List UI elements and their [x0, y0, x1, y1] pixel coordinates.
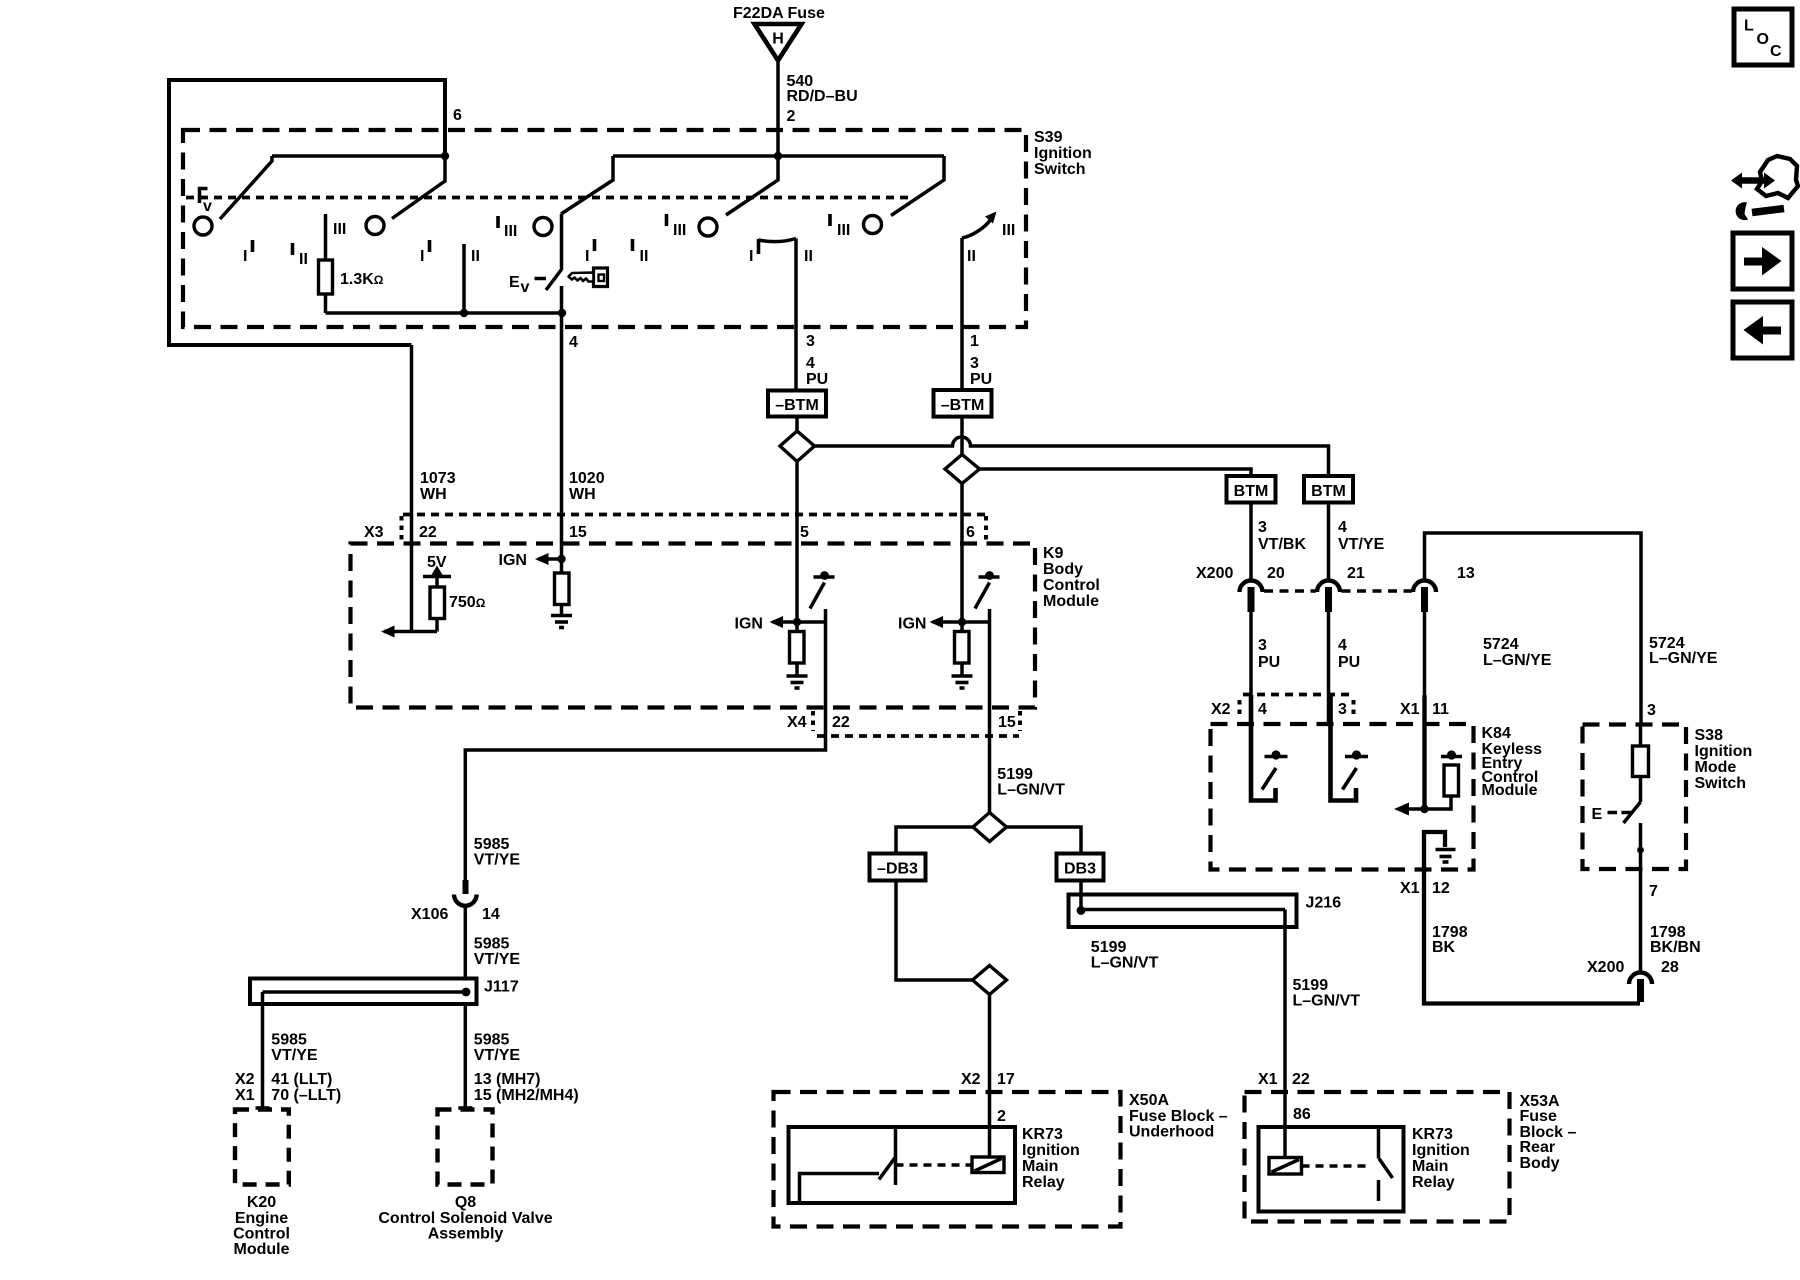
switch contact right in BCM — [975, 571, 1000, 608]
key switch wire upper pole C — [560, 214, 564, 270]
hook contact pole E — [759, 239, 797, 242]
wire feed segment B — [613, 154, 944, 158]
svg-text:L: L — [1744, 18, 1754, 35]
switch blade pole E — [891, 156, 944, 216]
relay1 actuation dashed link — [896, 1163, 973, 1167]
svg-text:Q8: Q8 — [455, 1194, 476, 1211]
tick I pole D — [585, 239, 595, 265]
node junction 562,313 — [558, 309, 566, 317]
switch contact left in BCM — [810, 571, 835, 608]
svg-text:III: III — [673, 222, 686, 239]
relay1 common divider — [894, 1127, 898, 1185]
svg-text:III: III — [504, 223, 517, 240]
svg-text:I: I — [420, 248, 424, 265]
svg-text:1073: 1073 — [420, 470, 456, 487]
splice diamond 4 — [973, 966, 1007, 995]
svg-text:Engine: Engine — [235, 1210, 288, 1227]
tick II pole D — [633, 239, 649, 265]
tick III pole C — [498, 216, 517, 240]
svg-text:14: 14 — [482, 906, 500, 923]
solid housing box upper-left — [169, 80, 445, 345]
IGN reference on wire 15 — [499, 552, 566, 569]
svg-text:E: E — [1592, 806, 1603, 823]
wire label 5985 VT/YE upper — [474, 836, 521, 869]
svg-text:C: C — [1770, 43, 1782, 60]
svg-text:4: 4 — [806, 355, 815, 372]
svg-text:5985: 5985 — [474, 936, 510, 953]
svg-text:15 (MH2/MH4): 15 (MH2/MH4) — [474, 1087, 579, 1104]
svg-text:X1: X1 — [1258, 1071, 1278, 1088]
svg-text:BK/BN: BK/BN — [1650, 939, 1701, 956]
connector X3 bracket right — [984, 516, 988, 542]
contact circle pole D — [699, 218, 717, 236]
contact II pole C wire to bus — [462, 244, 466, 313]
svg-text:PU: PU — [806, 371, 828, 388]
ignition main relay KR73 box 1 — [789, 1127, 1016, 1203]
svg-text:12: 12 — [1432, 880, 1450, 897]
relay2 common divider — [1377, 1127, 1381, 1159]
svg-text:70 (–LLT): 70 (–LLT) — [271, 1087, 341, 1104]
K84 resistor — [1400, 750, 1462, 809]
svg-text:21: 21 — [1347, 565, 1365, 582]
connector X4 bracket right — [1018, 711, 1022, 731]
svg-text:E: E — [509, 274, 520, 291]
svg-text:H: H — [772, 31, 784, 48]
svg-text:Relay: Relay — [1022, 1174, 1065, 1191]
tick I pole E — [749, 239, 759, 265]
svg-text:2: 2 — [997, 1108, 1006, 1125]
svg-text:6: 6 — [966, 524, 975, 541]
wire -BTM1 to splice — [795, 417, 799, 433]
svg-text:F22DA Fuse: F22DA Fuse — [733, 5, 825, 22]
svg-text:K9: K9 — [1043, 545, 1064, 562]
contact circle pole C — [534, 218, 552, 236]
forward arrow legend box — [1733, 233, 1792, 289]
net reference DB3 box — [1057, 854, 1104, 881]
S38 label — [1695, 727, 1753, 792]
svg-text:3: 3 — [970, 355, 979, 372]
svg-text:X50A: X50A — [1129, 1092, 1169, 1109]
wire BTM-b to X200 pin21 — [1327, 503, 1331, 581]
splice diamond 3 — [973, 813, 1007, 842]
wire arrow into module — [381, 626, 437, 638]
tick I pole C — [420, 240, 430, 265]
svg-text:86: 86 — [1293, 1106, 1311, 1123]
svg-text:22: 22 — [419, 524, 437, 541]
wire pole F to pin 1 — [960, 238, 964, 390]
vehicle navigation icon — [1731, 156, 1798, 220]
switch blade pole B — [392, 156, 445, 219]
X53A label — [1520, 1093, 1577, 1172]
svg-text:Body: Body — [1043, 561, 1083, 578]
wire -DB3 to splice4 — [896, 881, 973, 981]
wire splice2 to BCM pin 6 — [960, 484, 964, 632]
wire -BTM2 to splice 2 — [960, 417, 964, 455]
svg-text:Switch: Switch — [1034, 161, 1086, 178]
S39 label — [1034, 129, 1092, 178]
svg-text:X106: X106 — [411, 906, 448, 923]
contact circle pole B — [366, 217, 384, 235]
svg-text:III: III — [333, 221, 346, 238]
svg-text:BK: BK — [1432, 939, 1456, 956]
S38 resistor — [1633, 725, 1649, 803]
svg-text:3: 3 — [1647, 702, 1656, 719]
svg-text:15: 15 — [569, 524, 587, 541]
svg-text:III: III — [1002, 222, 1015, 239]
node junction K84 pin11 — [1420, 805, 1428, 813]
svg-text:X200: X200 — [1196, 565, 1233, 582]
tick I pole B — [243, 240, 253, 265]
IGN reference left — [735, 616, 827, 633]
wire label 1798 BK/BN — [1650, 924, 1701, 956]
node junction at 445,156 — [441, 152, 449, 160]
splice pack J216 — [1069, 895, 1297, 928]
relay2 actuation dashed link — [1302, 1164, 1372, 1168]
svg-text:IGN: IGN — [735, 616, 763, 633]
svg-text:5199: 5199 — [1091, 939, 1127, 956]
body control module K9 box — [351, 544, 1036, 708]
resistor right in BCM — [955, 632, 970, 675]
svg-text:15: 15 — [998, 714, 1016, 731]
svg-text:IGN: IGN — [898, 616, 926, 633]
splice diamond 1 — [780, 431, 815, 462]
relay1 blade — [879, 1157, 896, 1180]
resistor 750 ohm — [430, 587, 445, 632]
svg-text:Switch: Switch — [1695, 775, 1747, 792]
key icon — [569, 268, 608, 287]
svg-text:v: v — [521, 279, 530, 296]
K84 switch 1 — [1251, 695, 1288, 801]
relay1 contact L bar — [800, 1174, 880, 1204]
svg-text:5199: 5199 — [1293, 977, 1329, 994]
svg-text:17: 17 — [997, 1071, 1015, 1088]
svg-text:750Ω: 750Ω — [449, 594, 486, 611]
svg-text:4: 4 — [1258, 701, 1267, 718]
K84 pin labels X2 4 3 X1 11 — [1211, 701, 1449, 718]
svg-text:X2: X2 — [235, 1071, 255, 1088]
splice diamond 2 — [945, 455, 980, 484]
svg-text:J216: J216 — [1306, 895, 1342, 912]
svg-text:RD/D–BU: RD/D–BU — [787, 88, 858, 105]
switch blade pole C — [561, 156, 613, 214]
wire label 5985 VT/YE left leg — [271, 1032, 318, 1065]
svg-text:X2: X2 — [961, 1071, 981, 1088]
svg-text:Underhood: Underhood — [1129, 1124, 1214, 1141]
svg-text:PU: PU — [970, 371, 992, 388]
svg-text:X2: X2 — [1211, 701, 1231, 718]
resistor left in BCM — [790, 632, 805, 675]
Q8 pin labels — [474, 1071, 579, 1104]
svg-text:K20: K20 — [247, 1194, 276, 1211]
wire splice1 to BCM pin 5 — [795, 462, 799, 632]
back arrow legend box — [1733, 302, 1792, 358]
ignition main relay KR73 box 2 — [1259, 1127, 1404, 1212]
tick II pole B — [293, 243, 308, 268]
ground left in BCM — [787, 676, 808, 688]
svg-text:–DB3: –DB3 — [877, 861, 918, 878]
svg-text:Ignition: Ignition — [1022, 1142, 1080, 1159]
svg-text:L–GN/YE: L–GN/YE — [1649, 650, 1718, 667]
svg-text:I: I — [243, 248, 247, 265]
svg-text:5985: 5985 — [271, 1032, 307, 1049]
wire label 3 4 PU — [806, 333, 828, 388]
K9 label — [1043, 545, 1100, 610]
switch blade pole D — [726, 156, 778, 215]
5V reference — [423, 554, 451, 587]
svg-text:KR73: KR73 — [1022, 1126, 1063, 1143]
svg-text:5: 5 — [800, 524, 809, 541]
key switch wire lower pole C — [560, 286, 564, 313]
wire X200-13 to K84 pin 11 — [1423, 607, 1427, 810]
svg-text:J117: J117 — [484, 979, 519, 996]
contact circle pole E — [864, 216, 882, 234]
svg-text:Module: Module — [234, 1241, 290, 1258]
svg-text:3: 3 — [1258, 519, 1267, 536]
svg-text:KR73: KR73 — [1412, 1126, 1453, 1143]
BTM box b — [1304, 476, 1353, 503]
relay2 coil — [1269, 1158, 1302, 1175]
wire stub to X4 pin15 — [988, 609, 992, 813]
contact III pole B with resistor 1.3K — [319, 214, 333, 313]
wire label 1 3 PU — [970, 333, 992, 388]
svg-text:5985: 5985 — [474, 1032, 510, 1049]
connector X3 dotted row — [403, 513, 986, 517]
accessory position symbol pole A — [200, 189, 213, 216]
X106 labels — [411, 906, 500, 923]
svg-text:4: 4 — [1338, 519, 1347, 536]
svg-text:Main: Main — [1022, 1158, 1058, 1175]
wire label 3 PU — [1258, 637, 1280, 671]
svg-text:III: III — [837, 222, 850, 239]
relay2 pin labels X1 22 — [1258, 1071, 1310, 1088]
wire 1798 BK — [1424, 870, 1640, 1004]
contact circle pole A — [194, 217, 212, 235]
wire label 5199 L-GN/VT mid — [1091, 939, 1159, 972]
relay1 coil — [972, 1157, 1004, 1173]
K84 pin labels X1 12 — [1400, 880, 1450, 897]
svg-text:7: 7 — [1649, 883, 1658, 900]
svg-text:BTM: BTM — [1311, 483, 1346, 500]
svg-text:PU: PU — [1258, 654, 1280, 671]
connector X2 bracket left — [1238, 700, 1242, 719]
splice pack J117 — [250, 979, 477, 1005]
svg-text:5985: 5985 — [474, 836, 510, 853]
svg-text:WH: WH — [569, 486, 596, 503]
wire label 1020 WH — [569, 470, 605, 503]
switch blade pole A — [220, 156, 272, 219]
wire label 5985 VT/YE mid — [474, 936, 521, 969]
ground right in BCM — [952, 676, 973, 688]
svg-text:I: I — [585, 248, 589, 265]
svg-text:Assembly: Assembly — [428, 1226, 504, 1243]
svg-text:Module: Module — [1043, 593, 1099, 610]
S39 mechanical coupling dotted line — [186, 196, 910, 200]
svg-text:DB3: DB3 — [1064, 861, 1096, 878]
connector X4 bracket left — [811, 711, 815, 731]
fuse block X50A box — [774, 1092, 1121, 1227]
svg-text:VT/BK: VT/BK — [1258, 536, 1306, 553]
svg-text:1.3KΩ: 1.3KΩ — [340, 271, 384, 288]
wire horizontal net BTM with hop — [815, 437, 1329, 476]
wire label 5199 L-GN/VT right — [1293, 977, 1361, 1010]
wire X106 to J117 — [464, 906, 468, 979]
KR73 label 1 — [1022, 1126, 1080, 1191]
X200 row labels — [1196, 565, 1475, 582]
wire horizontal splice2 to BTM-a — [980, 469, 1252, 476]
svg-text:VT/YE: VT/YE — [474, 852, 521, 869]
switch blade pole F curved with arrow — [962, 212, 997, 239]
svg-text:II: II — [804, 248, 813, 265]
svg-text:4: 4 — [1338, 637, 1347, 654]
wire label 5199 L-GN/VT top — [997, 766, 1065, 799]
svg-text:3: 3 — [806, 333, 815, 350]
wire label 1798 BK — [1432, 924, 1468, 956]
contact II pole E wire to pin 3 — [794, 239, 798, 391]
svg-text:VT/YE: VT/YE — [474, 951, 521, 968]
svg-text:5724: 5724 — [1483, 636, 1519, 653]
svg-text:2: 2 — [787, 108, 796, 125]
connector X4 dotted row — [817, 734, 1019, 738]
svg-text:PU: PU — [1338, 654, 1360, 671]
svg-text:Module: Module — [1482, 782, 1538, 799]
K20 pin labels — [235, 1071, 341, 1104]
wire label 540 RD/D-BU 2 — [787, 73, 858, 125]
wire 1020 WH — [560, 313, 564, 559]
connector X200 pin 21 — [1317, 581, 1340, 613]
relay2 contact stub — [1377, 1180, 1381, 1201]
svg-text:S39: S39 — [1034, 129, 1063, 146]
bus wire in S39 — [326, 311, 563, 315]
connector X200 dashed row — [1264, 589, 1412, 593]
K84 label — [1482, 725, 1543, 799]
svg-text:X3: X3 — [364, 524, 384, 541]
K84 switch 2 — [1331, 695, 1369, 801]
svg-text:Control: Control — [233, 1226, 290, 1243]
wire 540 RD/D-BU from fuse — [776, 61, 780, 158]
svg-text:L–GN/VT: L–GN/VT — [997, 782, 1065, 799]
connector X3 bracket left — [400, 516, 404, 542]
connector X106 — [454, 880, 477, 906]
svg-text:Ignition: Ignition — [1412, 1142, 1470, 1159]
svg-text:22: 22 — [1292, 1071, 1310, 1088]
svg-text:L–GN/VT: L–GN/VT — [1293, 993, 1361, 1010]
svg-text:VT/YE: VT/YE — [474, 1047, 521, 1064]
wire X200-21 to K84 pin 3 — [1327, 607, 1331, 725]
tick III pole D — [667, 214, 687, 239]
wire splice4 to relay 1 — [988, 995, 992, 1158]
wire BTM-a to X200 pin20 — [1249, 503, 1253, 581]
K84 internal arrow — [1394, 803, 1409, 816]
svg-text:X200: X200 — [1587, 959, 1624, 976]
relay2 blade — [1379, 1159, 1393, 1179]
wire 1073 WH — [410, 345, 414, 632]
wire DB3 to J216 — [1079, 881, 1083, 911]
wire X200-20 to K84 pin 4 — [1249, 607, 1253, 725]
connector X2 bracket right — [1352, 700, 1356, 719]
wire J117 left leg to K20 — [256, 992, 270, 1108]
wire J117 right leg to Q8 — [458, 1004, 472, 1108]
svg-text:4: 4 — [569, 334, 578, 351]
wire label 4 PU — [1338, 637, 1360, 671]
wire feed segment A — [272, 154, 445, 158]
Q8 label — [378, 1194, 552, 1243]
svg-text:20: 20 — [1267, 565, 1285, 582]
ignition mode switch S38 box — [1583, 725, 1687, 870]
svg-text:–BTM: –BTM — [941, 397, 985, 414]
wire label 3 VT/BK — [1258, 519, 1306, 553]
S38 switch label E — [1592, 806, 1632, 823]
wire splice3 to DB3 — [1007, 827, 1082, 854]
connector X4 labels — [787, 714, 1016, 731]
svg-text:II: II — [471, 248, 480, 265]
K84 ground — [1424, 832, 1456, 870]
svg-text:Relay: Relay — [1412, 1174, 1455, 1191]
svg-text:41 (LLT): 41 (LLT) — [271, 1071, 332, 1088]
svg-text:–BTM: –BTM — [775, 397, 819, 414]
LOC legend box — [1734, 9, 1792, 65]
svg-text:Fuse Block –: Fuse Block – — [1129, 1108, 1228, 1125]
svg-text:1020: 1020 — [569, 470, 605, 487]
key switch label E — [509, 274, 546, 296]
control solenoid valve Q8 box — [438, 1110, 493, 1185]
svg-text:X1: X1 — [1400, 880, 1420, 897]
svg-text:v: v — [203, 198, 212, 215]
svg-text:II: II — [640, 248, 649, 265]
wire label 1073 WH — [420, 470, 456, 503]
svg-text:Mode: Mode — [1695, 759, 1737, 776]
resistor on wire 15 — [555, 559, 570, 614]
svg-text:BTM: BTM — [1234, 483, 1269, 500]
S38 lower wire with node — [1637, 823, 1644, 869]
svg-text:3: 3 — [1258, 637, 1267, 654]
keyless module K84 box — [1211, 724, 1474, 870]
connector X200 pin 28 — [1629, 973, 1652, 1003]
svg-text:Rear: Rear — [1520, 1139, 1556, 1156]
svg-text:O: O — [1757, 31, 1769, 48]
svg-text:L–GN/VT: L–GN/VT — [1091, 955, 1159, 972]
wire 5724 feed horizontal to S38 — [1425, 533, 1642, 725]
svg-text:S38: S38 — [1695, 727, 1724, 744]
connector X200 pin 13 — [1413, 581, 1436, 613]
wire J216 to relay 2 — [1283, 910, 1287, 1158]
svg-text:28: 28 — [1661, 959, 1679, 976]
K20 label — [233, 1194, 290, 1258]
wire label 5985 VT/YE right leg — [474, 1032, 521, 1065]
svg-text:13: 13 — [1457, 565, 1475, 582]
wire label 4 VT/YE — [1338, 519, 1385, 553]
S38 pin 7 wire to X200-28 — [1639, 869, 1643, 973]
svg-text:Control Solenoid Valve: Control Solenoid Valve — [378, 1210, 552, 1227]
svg-text:13 (MH7): 13 (MH7) — [474, 1071, 541, 1088]
ignition switch S39 box — [183, 130, 1026, 327]
wire label 5724 L-GN/YE left — [1483, 636, 1552, 669]
KR73 label 2 — [1412, 1126, 1470, 1191]
IGN reference right — [898, 616, 991, 633]
wire stub to X4 pin22 — [465, 609, 825, 880]
svg-text:Main: Main — [1412, 1158, 1448, 1175]
ground reference -BTM box 1 — [768, 391, 826, 417]
svg-text:L–GN/YE: L–GN/YE — [1483, 652, 1552, 669]
svg-text:Control: Control — [1043, 577, 1100, 594]
svg-text:Ignition: Ignition — [1695, 743, 1753, 760]
svg-text:11: 11 — [1432, 701, 1449, 718]
svg-text:X1: X1 — [235, 1087, 255, 1104]
X3 row labels — [364, 524, 975, 541]
ground reference -BTM box 2 — [934, 390, 992, 417]
node junction 464,313 — [460, 309, 468, 317]
svg-text:X1: X1 — [1400, 701, 1420, 718]
svg-text:5199: 5199 — [997, 766, 1033, 783]
